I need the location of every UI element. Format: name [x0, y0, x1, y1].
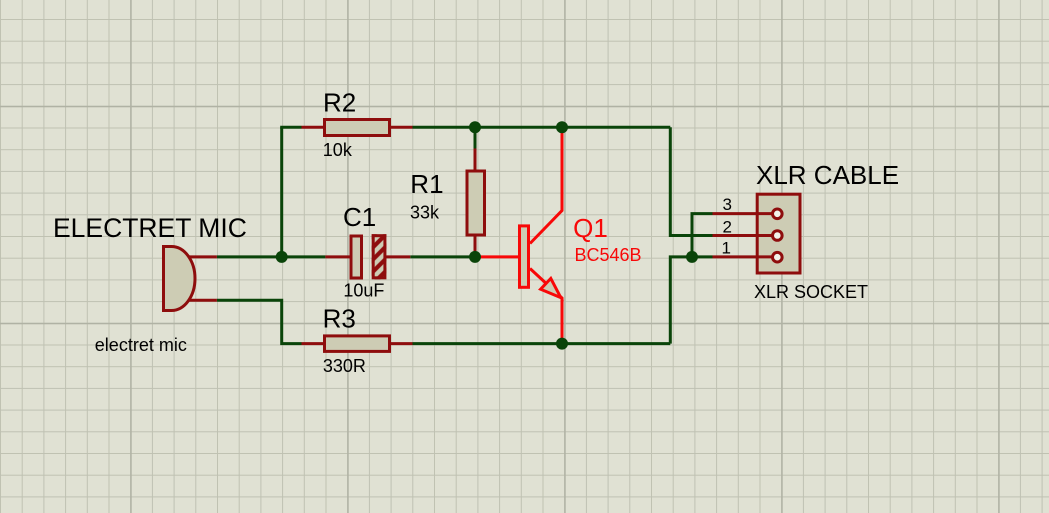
junction: emitter on bottom rail: [556, 338, 568, 350]
XLR pin 3 lead: [713, 212, 773, 215]
value 10k: [323, 140, 353, 160]
wire: corner to R2 left pin: [280, 126, 301, 129]
svg-text:10uF: 10uF: [343, 281, 384, 301]
wire: branch from pin1 junction up to XLR pin 3: [692, 214, 713, 257]
electret mic MIC1 body: [164, 247, 196, 311]
XLR pin 2 pad: [773, 231, 783, 241]
svg-text:2: 2: [723, 218, 732, 237]
mic bottom pin: [188, 299, 217, 302]
svg-text:XLR SOCKET: XLR SOCKET: [754, 282, 868, 302]
svg-text:C1: C1: [343, 202, 376, 232]
svg-text:R3: R3: [323, 303, 356, 333]
XLR connector J1 body: [757, 194, 800, 273]
wire: top rail from R2 left corner down to mic junction: [280, 127, 283, 257]
label R3: [323, 303, 356, 333]
svg-text:electret mic: electret mic: [95, 335, 187, 355]
svg-text:3: 3: [723, 195, 732, 214]
value 10uF: [343, 281, 384, 301]
XLR pin 2 lead: [713, 234, 773, 237]
svg-text:R1: R1: [410, 169, 443, 199]
value BC546B: [575, 245, 642, 265]
wire: mic bottom pin right then down to R3 row: [217, 300, 302, 343]
wire: emitter rail up right side to XLR pin 1: [670, 257, 712, 344]
Q1 base bar: [520, 226, 529, 287]
svg-text:ELECTRET MIC: ELECTRET MIC: [53, 213, 247, 243]
resistor R2: [302, 120, 413, 136]
label Q1: [573, 213, 608, 243]
value 330R: [323, 356, 366, 376]
mic top pin: [188, 255, 217, 258]
junction: mic top node: [276, 251, 288, 263]
pin number 2: [723, 218, 732, 237]
junction: XLR pin1 node: [686, 251, 698, 263]
label XLR SOCKET: [754, 282, 868, 302]
XLR pin 1 lead: [713, 255, 773, 258]
wire: top rail R2 right to Q1 collector column and right corner: [413, 126, 671, 129]
Q1 base wire: [477, 255, 518, 258]
svg-text:1: 1: [722, 239, 731, 258]
junction: collector on rail: [556, 121, 568, 133]
transistor Q1 (highlighted red): [477, 130, 562, 342]
label XLR CABLE: [756, 160, 899, 190]
Q1 collector: [530, 130, 562, 244]
label ELECTRET MIC: [53, 213, 247, 243]
Q1 emitter: [530, 269, 562, 343]
svg-text:BC546B: BC546B: [575, 245, 642, 265]
svg-text:Q1: Q1: [573, 213, 608, 243]
svg-text:33k: 33k: [410, 203, 440, 223]
wire: C1 right pin to base junction: [410, 255, 475, 258]
svg-text:XLR CABLE: XLR CABLE: [756, 160, 899, 190]
wire: junction to R1 top pin: [474, 127, 477, 148]
resistor R1: [467, 149, 485, 257]
label R2: [323, 88, 356, 118]
value 33k: [410, 203, 440, 223]
capacitor C1: [325, 234, 410, 279]
junction: base node: [469, 251, 481, 263]
svg-text:R2: R2: [323, 88, 356, 118]
XLR pin 3 pad: [773, 209, 783, 219]
Q1 emitter arrow: [541, 278, 561, 297]
wire: mic top pin to C1 through junction: [217, 255, 326, 258]
resistor R3: [302, 336, 413, 352]
pin number 1: [722, 239, 731, 258]
label C1: [343, 202, 376, 232]
wire: collector rail down right side to XLR pin 2: [670, 127, 712, 235]
XLR pin 1 pad: [773, 252, 783, 262]
label electret mic: [95, 335, 187, 355]
svg-text:10k: 10k: [323, 140, 353, 160]
pin number 3: [723, 195, 732, 214]
junction: R1 top on rail: [469, 121, 481, 133]
svg-text:330R: 330R: [323, 356, 366, 376]
label R1: [410, 169, 443, 199]
wire: bottom rail R3 right to emitter junction and right corner: [413, 342, 671, 345]
